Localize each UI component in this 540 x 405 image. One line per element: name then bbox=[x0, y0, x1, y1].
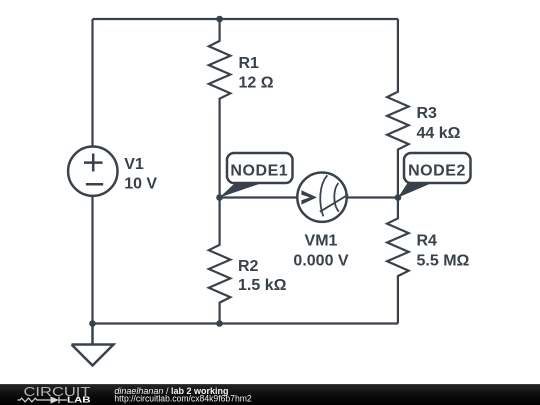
node label NODE2 pointer bbox=[398, 183, 432, 198]
voltmeter VM1 body bbox=[297, 173, 346, 222]
wire top rail bbox=[93, 18, 399, 20]
svg-text:V1: V1 bbox=[124, 156, 144, 173]
CircuitLab logo diode triangle bbox=[51, 396, 60, 403]
junction NODE1 bbox=[216, 194, 223, 201]
resistor R3 bbox=[387, 19, 409, 198]
V1 plus sign bbox=[84, 154, 103, 172]
svg-text:VM1: VM1 bbox=[305, 233, 338, 250]
node label NODE2 box bbox=[404, 153, 471, 183]
wire voltmeter row NODE1-NODE2 bbox=[220, 196, 399, 198]
svg-text:5.5 MΩ: 5.5 MΩ bbox=[417, 253, 470, 270]
svg-text:44 kΩ: 44 kΩ bbox=[417, 125, 461, 142]
node label NODE1 pointer bbox=[220, 183, 263, 198]
svg-text:1.5 kΩ: 1.5 kΩ bbox=[238, 277, 287, 294]
VM1 chevron bbox=[301, 190, 317, 204]
V1 minus sign bbox=[86, 183, 103, 186]
svg-text:R4: R4 bbox=[417, 233, 438, 250]
svg-text:R1: R1 bbox=[239, 55, 260, 72]
junction NODE2 bbox=[395, 194, 402, 201]
resistor R1 bbox=[209, 19, 231, 198]
svg-text:0.000 V: 0.000 V bbox=[293, 252, 348, 269]
junction bottom left bbox=[89, 320, 96, 327]
CircuitLab logo resistor-diode glyph bbox=[18, 397, 68, 404]
svg-text:NODE1: NODE1 bbox=[230, 162, 288, 179]
ground symbol bbox=[72, 324, 114, 366]
wire left rail (through V1) bbox=[91, 19, 93, 324]
svg-text:12 Ω: 12 Ω bbox=[239, 75, 274, 92]
VM1 dial arc right bbox=[334, 183, 338, 212]
svg-text:R2: R2 bbox=[238, 258, 259, 275]
resistor R2 bbox=[209, 198, 231, 324]
VM1 needle bbox=[320, 195, 348, 212]
resistor R4 bbox=[387, 198, 409, 324]
footer bar bbox=[0, 384, 540, 405]
junction bottom mid bbox=[216, 320, 223, 327]
node label NODE1 box bbox=[227, 153, 293, 183]
svg-text:NODE2: NODE2 bbox=[408, 162, 466, 179]
VM1 dial arc left bbox=[320, 175, 327, 216]
svg-text:10 V: 10 V bbox=[124, 175, 157, 192]
svg-text:R3: R3 bbox=[417, 105, 438, 122]
wire bottom rail bbox=[93, 322, 399, 324]
voltage source V1 body bbox=[68, 147, 117, 196]
svg-text:LAB: LAB bbox=[67, 396, 91, 405]
junction top mid bbox=[216, 16, 223, 23]
svg-text:http://circuitlab.com/cx84k9f6: http://circuitlab.com/cx84k9f6b7hm2 bbox=[114, 393, 251, 403]
